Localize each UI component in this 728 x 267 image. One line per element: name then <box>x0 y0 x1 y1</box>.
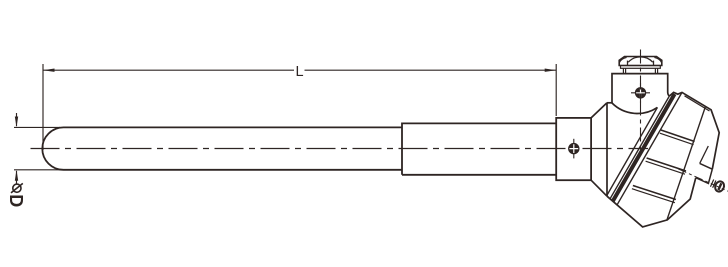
gasket thick line <box>613 94 675 201</box>
rib band left edge S5 <box>617 92 682 204</box>
svg-text:D: D <box>6 194 26 207</box>
dimension label diameter D <box>11 183 23 193</box>
flange stack line S2 <box>610 96 669 199</box>
cover silhouette outline <box>669 92 719 169</box>
dimension L arrowheads <box>43 69 556 72</box>
dimension D arrows <box>16 113 18 184</box>
head neck cylinder <box>612 74 669 103</box>
cover screw centerline <box>678 169 728 191</box>
cover screw <box>710 178 726 193</box>
gland stem <box>623 68 657 73</box>
neck centerline <box>640 50 642 157</box>
cable gland hex nut <box>619 57 662 66</box>
flare to head body <box>591 103 607 197</box>
rib separator 1 <box>661 130 695 142</box>
cover face chamfer crease <box>700 146 709 163</box>
dimension L line <box>43 69 556 71</box>
cover top chamfer crease <box>685 96 710 111</box>
svg-text:L: L <box>295 64 303 80</box>
hex nipple block <box>556 118 591 180</box>
dimension L extension lines <box>43 64 556 150</box>
probe sheath tube <box>42 127 402 169</box>
neck screw head <box>631 83 650 103</box>
head dome arc <box>612 103 657 113</box>
rib separator 3 <box>633 186 676 200</box>
cover screw boss <box>696 163 713 183</box>
gland washer <box>621 66 661 69</box>
rib band right edge S6 <box>667 107 705 220</box>
rib separator 2 <box>647 158 686 171</box>
transition sleeve cylinder <box>402 123 556 174</box>
dimension D extension lines <box>14 127 60 169</box>
nipple screw head <box>568 139 579 159</box>
body face stack line S1 <box>607 107 658 195</box>
centerline (probe axis) <box>31 148 649 150</box>
